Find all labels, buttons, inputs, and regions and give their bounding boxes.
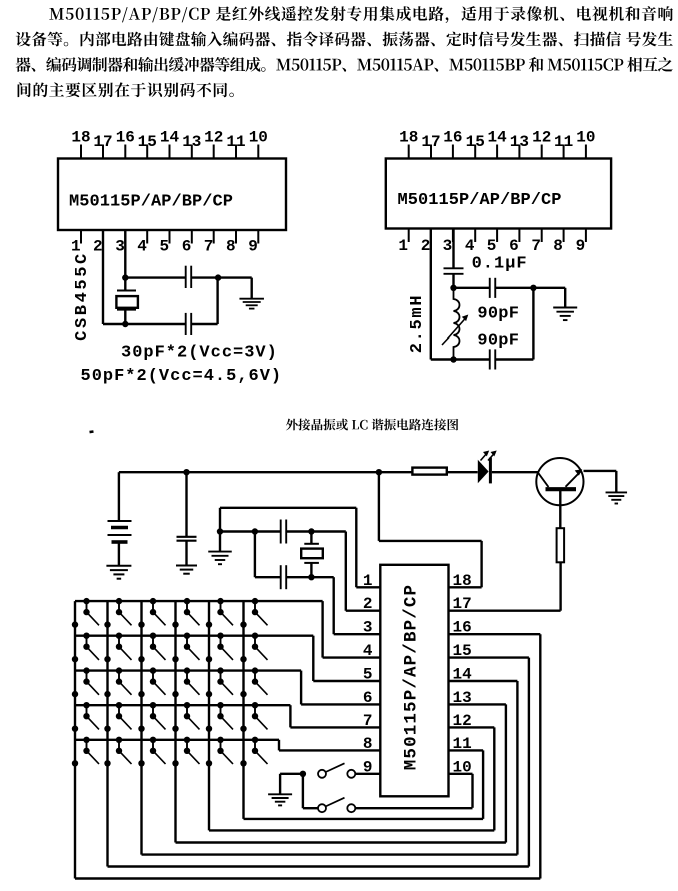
svg-text:9: 9: [576, 237, 586, 255]
svg-text:5: 5: [487, 237, 497, 255]
svg-text:6: 6: [182, 238, 192, 256]
svg-text:2: 2: [421, 237, 431, 255]
svg-text:2.5mH: 2.5mH: [408, 294, 427, 354]
svg-text:18: 18: [399, 129, 418, 147]
svg-text:17: 17: [421, 133, 440, 151]
svg-text:7: 7: [531, 237, 541, 255]
svg-text:5: 5: [159, 238, 169, 256]
svg-text:2: 2: [93, 238, 103, 256]
svg-text:13: 13: [182, 133, 201, 151]
svg-text:11: 11: [226, 133, 245, 151]
svg-text:50pF*2(Vcc=4.5,6V): 50pF*2(Vcc=4.5,6V): [81, 367, 283, 386]
svg-text:8: 8: [226, 238, 236, 256]
svg-text:3: 3: [115, 238, 125, 256]
svg-text:30pF*2(Vcc=3V): 30pF*2(Vcc=3V): [121, 344, 278, 363]
svg-text:3: 3: [443, 237, 453, 255]
svg-text:15: 15: [466, 133, 485, 151]
svg-text:M50115P/AP/BP/CP: M50115P/AP/BP/CP: [69, 193, 233, 212]
svg-text:8: 8: [553, 237, 563, 255]
svg-text:12: 12: [204, 129, 223, 147]
svg-text:90pF: 90pF: [477, 304, 519, 323]
svg-text:7: 7: [204, 238, 214, 256]
svg-text:90pF: 90pF: [477, 332, 519, 351]
svg-text:12: 12: [532, 129, 551, 147]
svg-text:M50115P/AP/BP/CP: M50115P/AP/BP/CP: [398, 191, 562, 210]
svg-text:4: 4: [465, 237, 475, 255]
svg-text:10: 10: [576, 129, 595, 147]
svg-text:16: 16: [116, 129, 135, 147]
svg-text:10: 10: [249, 129, 268, 147]
svg-text:9: 9: [248, 238, 258, 256]
svg-text:17: 17: [93, 133, 112, 151]
svg-text:1: 1: [398, 237, 408, 255]
svg-text:13: 13: [510, 133, 529, 151]
svg-text:11: 11: [554, 133, 573, 151]
svg-text:18: 18: [71, 129, 90, 147]
svg-text:16: 16: [443, 129, 462, 147]
svg-text:4: 4: [137, 238, 147, 256]
svg-text:M50115P/AP/BP/CP: M50115P/AP/BP/CP: [402, 584, 422, 770]
svg-text:CSB455C: CSB455C: [73, 251, 92, 341]
svg-text:14: 14: [487, 129, 507, 147]
svg-text:6: 6: [509, 237, 519, 255]
svg-text:15: 15: [138, 133, 157, 151]
svg-text:0.1µF: 0.1µF: [472, 255, 528, 274]
svg-text:14: 14: [160, 129, 180, 147]
